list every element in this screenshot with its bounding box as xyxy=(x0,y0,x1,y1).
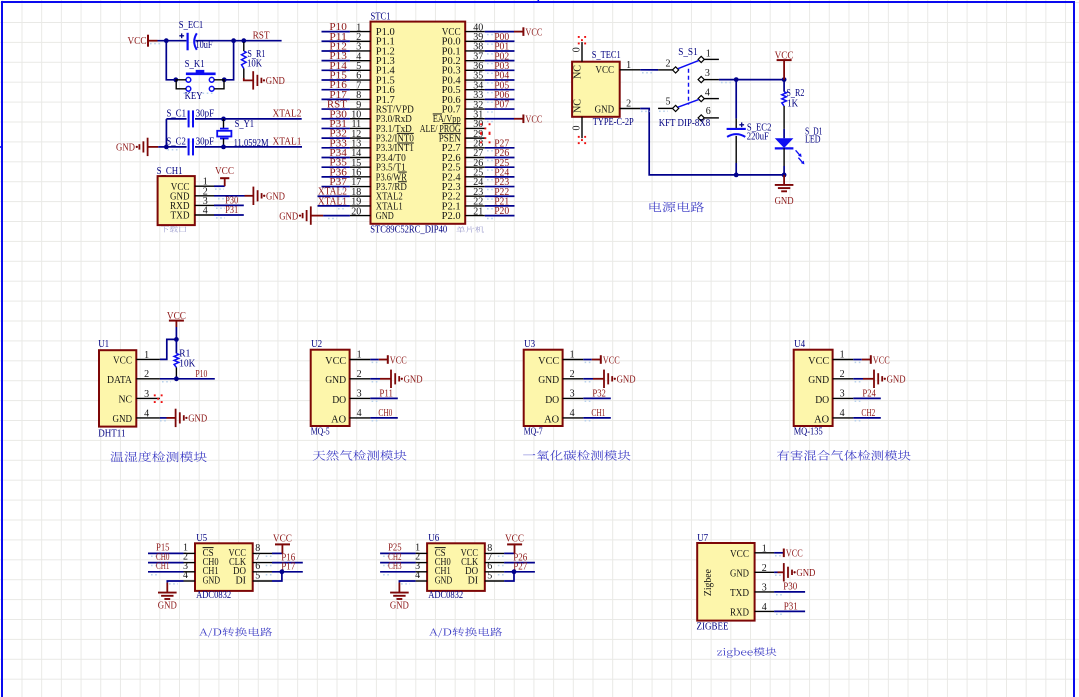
IC U1 designator xyxy=(98,339,109,350)
wire P36 (pin 16) xyxy=(322,177,350,180)
net label P25 xyxy=(494,158,509,169)
net label P21 xyxy=(494,197,509,208)
wire P16 (pin 7) xyxy=(322,90,350,93)
junction xyxy=(173,77,178,82)
wire P37 (pin 17) xyxy=(322,187,350,190)
wire pin1 branch xyxy=(160,339,177,359)
IC STC1 comment xyxy=(456,226,484,232)
ground (U6) xyxy=(390,583,409,612)
svg-text:6: 6 xyxy=(706,106,711,117)
wire P23 (pin 24) xyxy=(485,187,515,190)
wire P21 (pin 22) xyxy=(485,206,515,209)
svg-text:P30: P30 xyxy=(783,582,797,593)
svg-text:220uF: 220uF xyxy=(747,132,769,143)
net label P15 xyxy=(329,71,347,82)
svg-text:DO: DO xyxy=(815,395,829,406)
wire top to C1 xyxy=(166,118,186,120)
svg-text:VCC: VCC xyxy=(325,356,346,367)
crystal S_Y1 xyxy=(217,119,231,147)
wire RST (pin 9) xyxy=(322,109,350,112)
wire P27 (pin 28) xyxy=(485,148,515,151)
wire P16 (U5) xyxy=(266,563,303,566)
wire VCC to R1 xyxy=(175,327,177,339)
svg-text:GND: GND xyxy=(158,601,177,612)
svg-text:1: 1 xyxy=(626,60,631,71)
svg-text:KFT DIP-8X8: KFT DIP-8X8 xyxy=(659,118,711,129)
power port VCC (U2) xyxy=(388,355,407,366)
svg-text:U6: U6 xyxy=(428,533,439,544)
svg-text:20: 20 xyxy=(351,206,361,217)
svg-text:GND: GND xyxy=(538,375,559,386)
svg-text:1: 1 xyxy=(144,350,149,361)
capacitor S_C2 xyxy=(189,138,193,155)
wire pin1 to VCC xyxy=(214,186,225,189)
wire pin2 to GND (U4) xyxy=(853,379,874,382)
svg-text:21: 21 xyxy=(473,206,483,217)
svg-text:3: 3 xyxy=(840,389,845,400)
IC STC1 STC89C52RC_DIP40 xyxy=(350,22,485,224)
svg-text:S_EC1: S_EC1 xyxy=(179,20,204,31)
no connect U1 pin3 xyxy=(154,394,163,403)
wire CH0 (U5) xyxy=(148,563,184,566)
wire P17 (pin 8) xyxy=(322,99,350,102)
net label P02 xyxy=(494,51,509,62)
svg-text:DO: DO xyxy=(545,395,559,406)
IC U4 MQ-135 xyxy=(794,350,854,426)
svg-text:S_C2: S_C2 xyxy=(166,136,186,147)
IC STC1 type label xyxy=(370,225,447,236)
IC U7 ZIGBEE xyxy=(697,543,774,621)
svg-text:1: 1 xyxy=(357,350,362,361)
wire XTAL2 (pin 18) xyxy=(318,196,350,199)
svg-text:VCC: VCC xyxy=(525,115,542,126)
svg-text:VCC: VCC xyxy=(215,166,234,177)
net label P15 xyxy=(156,543,170,554)
wire CH1 (U5) xyxy=(148,572,184,575)
net label P33 xyxy=(329,138,347,149)
wire key left branch xyxy=(166,41,176,80)
svg-text:5: 5 xyxy=(255,570,260,581)
svg-text:3: 3 xyxy=(762,583,767,594)
net label P24 xyxy=(862,389,876,400)
junction xyxy=(241,38,246,43)
wire DI to DO (U6) xyxy=(504,572,514,581)
net label P16 xyxy=(329,80,347,91)
junction xyxy=(174,376,179,381)
IC U4 designator xyxy=(794,339,806,350)
power port VCC (reset) xyxy=(128,35,158,48)
svg-text:XTAL1: XTAL1 xyxy=(273,137,302,148)
wire P27 (U6) xyxy=(498,572,535,575)
IC U5 ADC0832 xyxy=(183,542,272,590)
svg-text:10uF: 10uF xyxy=(196,40,213,51)
net label P32 xyxy=(329,129,347,140)
caption 有害混合气体检测模块 xyxy=(777,450,911,461)
net label P03 xyxy=(494,61,509,72)
svg-text:4: 4 xyxy=(840,408,845,419)
net label P14 xyxy=(329,61,347,72)
power port VCC (U3) xyxy=(601,355,620,366)
power port VCC (U1) xyxy=(167,311,186,327)
junction xyxy=(280,569,285,574)
svg-text:GND: GND xyxy=(730,569,749,580)
net label P13 xyxy=(329,51,347,62)
svg-text:AO: AO xyxy=(331,414,346,425)
IC U6 designator xyxy=(428,533,439,544)
wire VCC node to resistor xyxy=(783,80,785,92)
wire P12 (pin 3) xyxy=(322,51,350,54)
net label P17 xyxy=(281,562,295,573)
svg-text:2: 2 xyxy=(626,98,631,109)
net label P30 (U7) xyxy=(783,582,797,593)
IC U3 type MQ-7 xyxy=(524,427,543,438)
wire CH1 (U3) xyxy=(583,418,611,421)
svg-text:CH2: CH2 xyxy=(861,408,875,419)
net label P30 xyxy=(329,109,347,120)
svg-text:NC: NC xyxy=(573,65,584,79)
svg-text:GND: GND xyxy=(279,211,298,222)
ground (U5) xyxy=(158,583,177,612)
svg-text:GND: GND xyxy=(617,375,636,386)
IC U6 type ADC0832 xyxy=(428,590,463,601)
caption A/D转换电路 (U5) xyxy=(199,627,272,637)
net label P26 xyxy=(513,552,527,563)
wire P33 (pin 13) xyxy=(322,148,350,151)
wire P01 (pin 38) xyxy=(485,51,515,54)
svg-text:4: 4 xyxy=(144,408,149,419)
svg-text:VCC: VCC xyxy=(603,355,620,366)
svg-text:AO: AO xyxy=(544,414,559,425)
IC U7 type ZIGBEE xyxy=(697,622,729,633)
svg-text:GND: GND xyxy=(808,375,829,386)
resistor S_R2 value 1K xyxy=(787,99,798,110)
power port VCC (S_CH1) xyxy=(215,166,234,186)
ground (U4) xyxy=(874,370,906,388)
resistor R1 designator xyxy=(179,349,190,360)
svg-text:4: 4 xyxy=(570,408,575,419)
wire XTAL1 xyxy=(224,146,303,148)
net label RST xyxy=(253,30,271,41)
power port VCC (U5) xyxy=(273,534,292,554)
wire bottom to C2 xyxy=(166,146,186,148)
svg-text:2: 2 xyxy=(840,369,845,380)
no connect pin 29 xyxy=(480,133,490,143)
net label P24 xyxy=(494,167,510,178)
switch S_S1 xyxy=(658,48,719,121)
svg-text:TXD: TXD xyxy=(730,588,749,599)
switch S_S1 type KFT DIP-8X8 xyxy=(659,118,711,129)
wire P17 (U5) xyxy=(266,572,303,575)
net label P36 xyxy=(329,167,347,178)
wire P11 (U2) xyxy=(370,398,398,401)
net label P26 xyxy=(494,148,509,159)
IC U5 type ADC0832 xyxy=(196,590,231,601)
net label P31 (U7) xyxy=(784,601,798,612)
svg-text:GND: GND xyxy=(595,104,615,115)
svg-text:TXD: TXD xyxy=(171,211,190,222)
svg-text:VCC: VCC xyxy=(730,549,749,560)
power port VCC (power circuit) xyxy=(775,50,794,79)
net label P05 xyxy=(494,80,509,91)
wire VCC (pin 40) xyxy=(485,32,524,35)
svg-text:VCC: VCC xyxy=(113,356,132,367)
net label P27 xyxy=(494,138,509,149)
svg-text:2: 2 xyxy=(357,369,362,380)
wire capacitor to rail xyxy=(735,136,737,175)
wire LED to rail xyxy=(783,148,785,175)
capacitor S_EC1 designator xyxy=(179,20,204,31)
svg-text:4: 4 xyxy=(705,87,710,98)
wire key right branch xyxy=(224,41,233,80)
svg-text:4: 4 xyxy=(357,408,362,419)
svg-text:ADC0832: ADC0832 xyxy=(196,590,231,601)
wire pin1 to VCC (U4) xyxy=(853,360,871,363)
svg-text:2: 2 xyxy=(666,59,671,70)
svg-text:GND: GND xyxy=(188,414,207,425)
push button S_K1 designator xyxy=(185,59,205,70)
resistor S_R2 xyxy=(782,92,787,106)
IC U6 ADC0832 xyxy=(415,542,504,590)
IC U3 MQ-7 xyxy=(524,350,584,426)
net label P11 xyxy=(329,32,347,43)
svg-text:VCC: VCC xyxy=(525,27,542,38)
svg-text:GND: GND xyxy=(113,414,133,425)
svg-text:1: 1 xyxy=(570,350,575,361)
net label P17 xyxy=(329,90,347,101)
ground (crystal) xyxy=(116,138,158,156)
wire pin8 to VCC (U5) xyxy=(266,553,283,556)
capacitor S_C2 designator xyxy=(166,136,186,147)
net label P31 xyxy=(329,119,347,130)
wire P31 xyxy=(214,215,244,218)
wire P07 (pin 32) xyxy=(485,109,515,112)
wire pin4 to GND xyxy=(160,418,176,421)
no connect S_TEC1 top xyxy=(578,36,586,44)
wire resistor to LED xyxy=(783,106,785,138)
svg-text:P32: P32 xyxy=(592,389,606,400)
junction xyxy=(164,38,169,43)
svg-text:TYPE-C-2P: TYPE-C-2P xyxy=(593,117,634,128)
svg-text:2: 2 xyxy=(144,369,149,380)
junction xyxy=(221,145,226,150)
net label CH2 xyxy=(861,408,875,419)
wire P06 (pin 33) xyxy=(485,99,515,102)
resistor S_R2 designator xyxy=(786,88,804,99)
wire GND (pin 20) xyxy=(323,216,350,219)
svg-text:P07: P07 xyxy=(494,100,509,111)
IC U1 type DHT11 xyxy=(98,428,125,439)
svg-text:VCC: VCC xyxy=(128,36,147,47)
wire pin4 to GND (U5) xyxy=(167,581,183,584)
svg-text:3: 3 xyxy=(144,389,149,400)
net label XTAL1 xyxy=(273,137,302,148)
wire P31 (pin 11) xyxy=(322,128,350,131)
caption 温湿度检测模块 xyxy=(110,451,206,462)
svg-text:U5: U5 xyxy=(196,533,207,544)
resistor S_R1 value 10K xyxy=(247,58,262,69)
wire P00 (pin 39) xyxy=(485,41,515,44)
svg-text:1K: 1K xyxy=(787,99,798,110)
crystal S_Y1 value 11.0592M xyxy=(234,138,270,149)
svg-text:0: 0 xyxy=(572,47,583,52)
net label RST xyxy=(327,100,348,111)
IC U7 designator xyxy=(697,533,708,544)
net label P00 xyxy=(494,32,509,43)
IC U2 designator xyxy=(311,339,322,350)
svg-text:2: 2 xyxy=(762,563,767,574)
svg-text:GND: GND xyxy=(376,211,394,222)
svg-text:LED: LED xyxy=(805,134,821,145)
svg-text:S_C1: S_C1 xyxy=(167,108,187,119)
svg-text:P11: P11 xyxy=(379,389,393,400)
wire RST to resistor xyxy=(243,42,245,51)
svg-text:P2.0: P2.0 xyxy=(442,211,461,222)
svg-text:1: 1 xyxy=(762,543,767,554)
wire riser xyxy=(165,119,167,147)
svg-text:S_Y1: S_Y1 xyxy=(235,119,255,130)
wire CH2 (U6) xyxy=(380,563,416,566)
wire P13 (pin 4) xyxy=(322,61,350,64)
svg-text:VCC: VCC xyxy=(538,356,559,367)
wire P24 (pin 25) xyxy=(485,177,515,180)
push button value KEY xyxy=(185,91,203,102)
wire CH3 (U6) xyxy=(380,572,416,575)
wire pin2 to GND (U3) xyxy=(583,379,604,382)
svg-text:2: 2 xyxy=(570,369,575,380)
svg-text:GND: GND xyxy=(266,192,285,203)
svg-text:GND: GND xyxy=(325,375,346,386)
wire pin4 to GND (U6) xyxy=(399,581,415,584)
svg-text:P10: P10 xyxy=(195,369,207,380)
connector S_TEC1 xyxy=(572,42,641,138)
wire pin8 to VCC (U6) xyxy=(498,553,515,556)
power port VCC (U6) xyxy=(505,534,524,554)
junction xyxy=(231,38,236,43)
power port VCC (pin 31) xyxy=(523,114,542,125)
svg-text:5: 5 xyxy=(487,570,492,581)
svg-text:4: 4 xyxy=(203,206,208,217)
wire pin1 to VCC (U2) xyxy=(370,360,388,363)
caption 一氧化碳检测模块 xyxy=(523,450,630,460)
IC STC1 designator xyxy=(371,11,391,22)
capacitor S_C2 value 30pF xyxy=(196,136,215,147)
svg-text:DATA: DATA xyxy=(107,375,133,386)
LED S_D1 xyxy=(775,138,805,164)
svg-text:DHT11: DHT11 xyxy=(98,428,125,439)
svg-text:XTAL2: XTAL2 xyxy=(273,109,302,120)
svg-text:AO: AO xyxy=(814,414,829,425)
wire P04 (pin 35) xyxy=(485,80,515,83)
net label CH2 xyxy=(388,552,402,563)
connector S_TEC1 designator xyxy=(592,50,621,61)
net label P16 xyxy=(281,552,295,563)
svg-text:P31: P31 xyxy=(225,205,238,216)
svg-text:STC89C52RC_DIP40: STC89C52RC_DIP40 xyxy=(370,225,447,236)
svg-text:U4: U4 xyxy=(794,339,806,350)
wire DI to DO (U5) xyxy=(272,572,282,581)
svg-text:1: 1 xyxy=(840,350,845,361)
svg-text:GND: GND xyxy=(435,575,453,586)
caption 天然气检测模块 xyxy=(313,450,407,461)
capacitor S_C1 value 30pF xyxy=(196,108,215,119)
svg-text:VCC: VCC xyxy=(873,355,890,366)
svg-text:RST: RST xyxy=(253,30,271,41)
wire P31 (U7) xyxy=(774,611,805,614)
wire GND to riser xyxy=(158,147,177,150)
wire pin1 to VCC (U3) xyxy=(583,360,601,363)
svg-text:MQ-5: MQ-5 xyxy=(311,427,330,438)
crystal S_Y1 designator xyxy=(235,119,255,130)
caption zigbee模块 xyxy=(717,647,776,657)
svg-text:MQ-7: MQ-7 xyxy=(524,427,543,438)
svg-text:30pF: 30pF xyxy=(196,136,215,147)
IC U2 type MQ-5 xyxy=(311,427,330,438)
wire P05 (pin 34) xyxy=(485,90,515,93)
wire P34 (pin 14) xyxy=(322,157,350,160)
wire P02 (pin 37) xyxy=(485,61,515,64)
junction xyxy=(222,77,227,82)
net label CH0 xyxy=(156,552,170,563)
svg-text:3: 3 xyxy=(570,389,575,400)
svg-text:CH1: CH1 xyxy=(156,561,170,572)
svg-text:3: 3 xyxy=(357,389,362,400)
svg-text:VCC: VCC xyxy=(786,549,803,560)
resistor R1 xyxy=(174,353,179,367)
svg-text:VCC: VCC xyxy=(595,65,614,76)
svg-text:VCC: VCC xyxy=(273,534,292,545)
capacitor S_C1 xyxy=(189,110,193,127)
caption 电源电路 xyxy=(650,202,705,213)
wire P10 xyxy=(160,379,215,382)
junction xyxy=(734,77,739,82)
wire pin2 to GND (U7) xyxy=(774,572,784,575)
svg-text:DO: DO xyxy=(332,395,346,406)
ground (U7) xyxy=(784,563,816,581)
net label P04 xyxy=(494,71,510,82)
wire CH0 (U2) xyxy=(370,418,398,421)
svg-text:VCC: VCC xyxy=(505,534,524,545)
wire P15 (U5) xyxy=(148,553,184,556)
svg-text:GND: GND xyxy=(390,601,409,612)
net label CH1 xyxy=(591,408,605,419)
switch S_S1 designator xyxy=(678,47,698,58)
svg-text:CH1: CH1 xyxy=(591,408,605,419)
net label P06 xyxy=(494,90,509,101)
svg-text:NC: NC xyxy=(119,395,133,406)
net label P10 xyxy=(329,22,347,33)
connector S_CH1 designator xyxy=(157,166,183,177)
net label P11 xyxy=(379,389,393,400)
wire P26 (U6) xyxy=(498,563,535,566)
wire XTAL2 xyxy=(224,118,302,120)
svg-text:4: 4 xyxy=(415,570,420,581)
svg-text:1: 1 xyxy=(706,48,711,59)
net label P23 xyxy=(494,177,509,188)
net label P22 xyxy=(494,187,509,198)
power port VCC (U7) xyxy=(784,549,803,560)
svg-text:XTAL1: XTAL1 xyxy=(318,196,347,207)
wire junction to resistor xyxy=(175,339,177,353)
capacitor S_EC2 xyxy=(727,122,746,136)
wire VCC to cap xyxy=(150,41,186,44)
wire TEC1 pin1 to switch xyxy=(640,70,658,73)
net label XTAL2 xyxy=(318,187,347,198)
svg-text:Zigbee: Zigbee xyxy=(703,569,714,596)
net label P07 xyxy=(494,100,509,111)
svg-text:GND: GND xyxy=(203,575,221,586)
wire P10 (pin 1) xyxy=(322,32,350,35)
net label XTAL2 xyxy=(273,109,302,120)
